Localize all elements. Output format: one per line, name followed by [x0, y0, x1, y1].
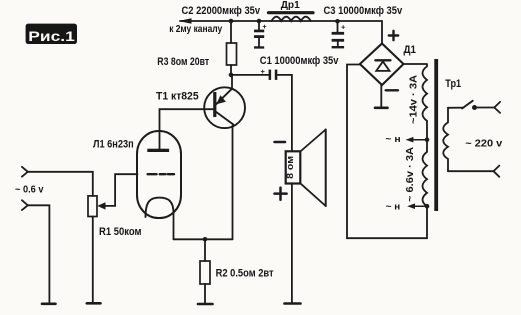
switch SA1 — [448, 101, 494, 110]
svg-text:С3 10000мкф 35v: С3 10000мкф 35v — [324, 5, 403, 17]
label plus bridge — [389, 31, 398, 40]
svg-text:+: + — [341, 23, 346, 32]
wire bridge minus to ground — [380, 85, 382, 107]
terminal heater bottom — [386, 201, 427, 212]
svg-text:к 2му каналу: к 2му каналу — [169, 24, 222, 35]
transformer Tr1 secondary winding — [423, 65, 428, 207]
wire primary bottom — [448, 170, 494, 172]
ground input — [42, 302, 56, 305]
wire grid to pot wiper — [105, 174, 138, 206]
svg-text:R3 8ом 20вт: R3 8ом 20вт — [157, 56, 209, 68]
svg-text:~ н: ~ н — [386, 201, 401, 212]
svg-text:R2 0.5ом 2вт: R2 0.5ом 2вт — [216, 268, 274, 280]
inductor choke Др1 — [269, 0, 314, 21]
svg-text:Д1: Д1 — [404, 44, 417, 56]
svg-text:~ н: ~ н — [385, 134, 400, 145]
svg-text:Др1: Др1 — [281, 0, 300, 11]
transformer core — [434, 59, 438, 211]
terminal mains bottom — [494, 166, 500, 177]
wire C1 to speaker — [277, 75, 292, 152]
figure label Рис.1 — [26, 24, 77, 44]
label minus bridge — [386, 89, 398, 91]
wire bridge AC right to transformer — [404, 63, 428, 65]
svg-text:+: + — [261, 67, 266, 76]
tube U1 Л1 6н23п — [93, 131, 181, 239]
wire to C1 — [231, 74, 269, 76]
input terminal 1 — [22, 167, 93, 196]
node junction R3/emitter/C1 — [229, 73, 234, 78]
speaker 8 ом — [285, 130, 326, 207]
ground R2 — [198, 303, 213, 306]
diode bridge Д1 — [360, 44, 416, 86]
node tap heater top — [425, 137, 430, 142]
transistor Q1 T1 кт825 — [156, 75, 245, 239]
transformer primary winding — [443, 108, 448, 171]
capacitor C2 — [254, 21, 267, 49]
terminal mains top — [494, 102, 500, 113]
svg-text:Тр1: Тр1 — [445, 78, 461, 90]
svg-text:8 ом: 8 ом — [285, 156, 295, 179]
svg-text:~ 0.6 v: ~ 0.6 v — [15, 184, 44, 195]
svg-text:Рис.1: Рис.1 — [28, 28, 75, 44]
resistor R2 — [200, 239, 274, 303]
wire bridge AC left loop to winding bottom — [347, 65, 427, 239]
svg-text:С1 10000мкф 35v: С1 10000мкф 35v — [260, 55, 339, 67]
ground speaker — [285, 302, 301, 305]
ground pot R1 — [87, 302, 101, 305]
wire top supply rail — [180, 21, 382, 44]
wire anode to base — [160, 109, 214, 149]
wire speaker to ground — [291, 183, 293, 302]
svg-text:Л1 6н23п: Л1 6н23п — [93, 139, 134, 151]
svg-text:Т1 кт825: Т1 кт825 — [156, 90, 199, 102]
capacitor C1 — [260, 55, 339, 80]
label plus speaker — [275, 188, 287, 200]
resistor R3 — [157, 21, 236, 75]
ground bridge — [375, 107, 388, 110]
terminal heater top — [385, 134, 427, 145]
svg-text:R1 50ком: R1 50ком — [99, 226, 142, 238]
svg-text:~ 220 v: ~ 220 v — [465, 139, 502, 150]
node arrow to 2nd channel — [179, 18, 192, 23]
svg-text:~ 6.6v · 3А: ~ 6.6v · 3А — [405, 147, 416, 202]
svg-text:+: + — [262, 22, 267, 31]
potentiometer R1 — [88, 196, 142, 302]
svg-text:~14v · 3А: ~14v · 3А — [409, 75, 420, 124]
node winding bottom junction — [425, 204, 430, 209]
wire cathode/collector bottom — [174, 238, 233, 240]
node junction rail/R3 — [229, 19, 234, 24]
node junction rail/C2 — [257, 19, 262, 24]
capacitor C3 — [332, 21, 346, 48]
svg-text:С2 22000мкф 35v: С2 22000мкф 35v — [182, 5, 261, 17]
input terminal 2 — [22, 200, 50, 302]
node junction rail/C3 — [335, 19, 340, 24]
label minus speaker — [275, 141, 286, 144]
node junction R2 — [203, 237, 208, 242]
